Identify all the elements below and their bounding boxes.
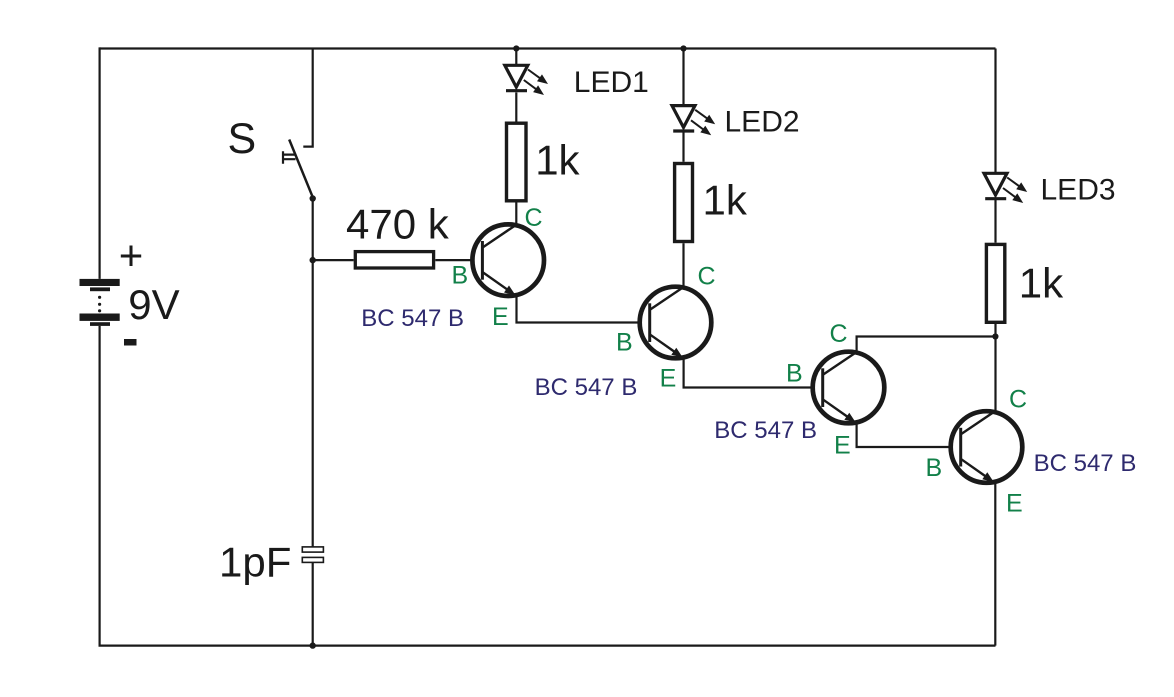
switch S actuator [283,151,296,164]
node junction Q3 collector [992,333,998,339]
LED3 [984,173,1027,203]
svg-text:B: B [926,454,943,482]
svg-text:1k: 1k [703,177,748,224]
svg-text:B: B [616,329,633,357]
wire LED3 to R4 [994,200,996,243]
svg-text:1k: 1k [1019,260,1064,307]
svg-text:9V: 9V [128,281,179,328]
svg-text:+: + [119,232,144,279]
wire top rail [100,47,996,49]
wire Q4 emitter to bottom rail [994,481,996,646]
svg-text:C: C [698,263,716,291]
wire junction to resistor 470k [313,259,354,261]
switch S bottom contact node [310,195,316,201]
svg-text:LED2: LED2 [725,106,800,139]
transistor Q4 BC547B [951,411,1023,483]
wire Q1 emitter to Q2 base [517,295,650,323]
wire R2 to Q1 collector [515,203,517,225]
transistor Q2 BC547B [640,287,712,359]
wire top rail to LED1 [515,49,517,66]
resistor R1 470k [355,252,433,268]
battery minus label [124,339,137,346]
wire LED1 to R2 [515,92,517,121]
wire LED2 to R3 [682,131,684,162]
wire middle rail switch to capacitor [312,199,314,547]
svg-text:E: E [834,432,851,460]
transistor Q3 BC547B [813,352,885,424]
node junction LED1 top [513,45,519,51]
LED2 [672,106,715,136]
svg-text:BC 547 B: BC 547 B [1034,450,1137,477]
resistor R4 1k [986,244,1004,322]
wire R4 to Q4 collector [994,324,996,413]
node junction LED2 top [680,45,686,51]
svg-text:B: B [452,262,469,290]
wire Q2 emitter to Q3 base [684,357,823,388]
svg-text:S: S [228,115,257,163]
wire R3 to Q2 collector [682,243,684,288]
svg-text:1k: 1k [535,137,580,184]
wire left rail lower [98,326,100,646]
svg-text:BC 547 B: BC 547 B [714,417,817,444]
battery B1 9V [80,279,120,326]
node junction bottom rail [310,642,316,648]
svg-text:E: E [492,303,509,331]
wire Q3 collector to right column [857,337,996,354]
transistor Q1 BC547B [472,224,544,296]
wire Q3 emitter to Q4 base [857,422,961,448]
svg-text:C: C [525,204,543,232]
wire capacitor to bottom rail [312,562,314,645]
svg-text:1pF: 1pF [219,539,291,586]
wire middle drop to switch [303,49,312,147]
svg-text:C: C [1009,386,1027,414]
wire bottom rail [99,644,996,646]
svg-text:BC 547 B: BC 547 B [535,374,638,401]
svg-text:E: E [660,365,677,393]
wire 470k to Q1 base [435,259,482,261]
svg-text:LED1: LED1 [574,66,649,99]
capacitor C1 1pF [302,547,323,563]
svg-text:C: C [830,320,848,348]
resistor R3 1k [675,164,693,242]
resistor R2 1k [507,123,527,201]
svg-text:BC 547 B: BC 547 B [361,305,464,332]
svg-text:LED3: LED3 [1041,173,1116,206]
svg-text:B: B [786,360,803,388]
svg-text:470 k: 470 k [346,200,450,247]
wire left rail upper [98,47,100,279]
LED1 [505,65,548,95]
wire top rail to LED2 [682,49,684,106]
svg-text:E: E [1006,490,1023,518]
switch S lever [289,140,313,199]
node junction 470k branch [310,257,316,263]
wire top rail to LED3 [994,49,996,174]
